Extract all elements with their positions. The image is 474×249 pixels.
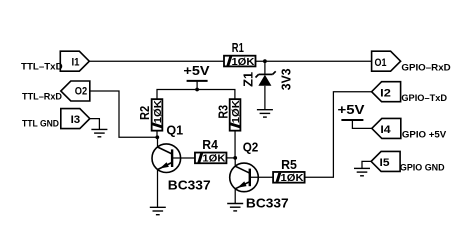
connector I3 (TTL GND) <box>61 109 90 129</box>
svg-text:Q1: Q1 <box>166 124 183 138</box>
wire R5 to I2 <box>305 92 372 178</box>
svg-text:+5V: +5V <box>183 64 210 78</box>
wire Z1 to ground <box>264 86 266 110</box>
svg-text:I3: I3 <box>71 114 81 126</box>
wire node D to Q2 collector <box>234 158 236 167</box>
transistor Q2 BC337 <box>230 163 259 192</box>
junction node D (R3/R4/Q2 collector) <box>233 156 237 160</box>
svg-text:I5: I5 <box>380 157 390 169</box>
wire I3 to ground <box>90 119 100 130</box>
connector I5 (GPIO GND) <box>371 151 400 171</box>
wire I5 to ground <box>362 161 371 168</box>
wire Q2 base to R5 <box>250 176 273 178</box>
svg-text:TTL–RxD: TTL–RxD <box>22 91 62 102</box>
resistor R3 10K <box>230 99 242 130</box>
svg-text:GPIO +5V: GPIO +5V <box>402 130 447 141</box>
svg-text:1ØK: 1ØK <box>153 100 164 124</box>
transistor Q1 BC337 <box>152 144 181 173</box>
svg-text:3V3: 3V3 <box>280 68 294 90</box>
wire node A to Z1 <box>264 61 266 74</box>
junction node C (R2/O2/Q1 collector) <box>155 135 159 139</box>
svg-text:I2: I2 <box>380 87 391 99</box>
connector I2 (GPIO-TxD) <box>372 82 401 102</box>
wire R1 to O1 <box>256 60 372 62</box>
wire +5V to I4 <box>352 120 371 128</box>
wire Q1 emitter to ground <box>157 170 159 208</box>
svg-text:GPIO–TxD: GPIO–TxD <box>401 93 447 104</box>
wire R4 to node D <box>226 157 235 159</box>
wire R3 to node D <box>234 130 236 158</box>
svg-text:BC337: BC337 <box>246 197 289 211</box>
svg-text:BC337: BC337 <box>168 179 211 193</box>
svg-text:1ØK: 1ØK <box>281 173 305 184</box>
svg-text:TTL GND: TTL GND <box>22 119 59 130</box>
connector O1 (GPIO-RxD) <box>372 51 401 71</box>
svg-text:O2: O2 <box>75 86 87 98</box>
resistor R1 10K <box>224 56 256 68</box>
wire I1 to R1 <box>89 60 224 62</box>
svg-text:GPIO–RxD: GPIO–RxD <box>401 62 450 73</box>
junction node B (+5V rail) <box>195 88 199 92</box>
svg-text:Z1: Z1 <box>241 72 255 87</box>
junction node A (R1/Z1/GPIO-RxD) <box>263 59 267 63</box>
svg-text:Q2: Q2 <box>243 140 259 154</box>
resistor R2 10K <box>152 99 164 130</box>
svg-text:+5V: +5V <box>338 103 366 117</box>
resistor R4 10K <box>195 153 227 165</box>
svg-text:O1: O1 <box>375 57 387 69</box>
svg-text:GPIO GND: GPIO GND <box>400 162 445 173</box>
svg-text:R4: R4 <box>202 138 218 152</box>
svg-text:1ØK: 1ØK <box>202 154 226 165</box>
ground (TTL GND) <box>91 128 107 130</box>
svg-text:R1: R1 <box>232 41 244 55</box>
svg-text:R5: R5 <box>281 158 297 172</box>
zener diode Z1 3V3 <box>256 71 276 86</box>
svg-text:1ØK: 1ØK <box>231 57 255 68</box>
wire +5V rail to R2 and R3 <box>157 90 235 100</box>
ground (GPIO GND) <box>354 167 370 169</box>
ground (Q1 emitter) <box>150 206 166 208</box>
svg-text:I4: I4 <box>380 124 391 136</box>
wire R2 to node C <box>156 130 158 137</box>
connector I4 (GPIO +5V) <box>372 118 401 138</box>
wire Q2 emitter to ground <box>234 189 236 204</box>
connector I1 (TTL-TxD input) <box>60 51 89 71</box>
svg-text:I1: I1 <box>72 57 80 69</box>
svg-text:1ØK: 1ØK <box>231 100 242 124</box>
ground (Z1) <box>257 109 273 111</box>
svg-text:R3: R3 <box>217 105 231 119</box>
ground (Q2 emitter) <box>227 203 243 205</box>
resistor R5 10K <box>273 172 305 184</box>
svg-text:TTL–TxD: TTL–TxD <box>21 62 63 73</box>
wire node C to Q1 collector <box>157 137 159 147</box>
wire O2 to node C <box>90 91 158 137</box>
connector O2 (TTL-RxD output) <box>61 81 90 101</box>
svg-text:R2: R2 <box>138 106 152 120</box>
wire Q1 base to R4 <box>172 157 195 159</box>
